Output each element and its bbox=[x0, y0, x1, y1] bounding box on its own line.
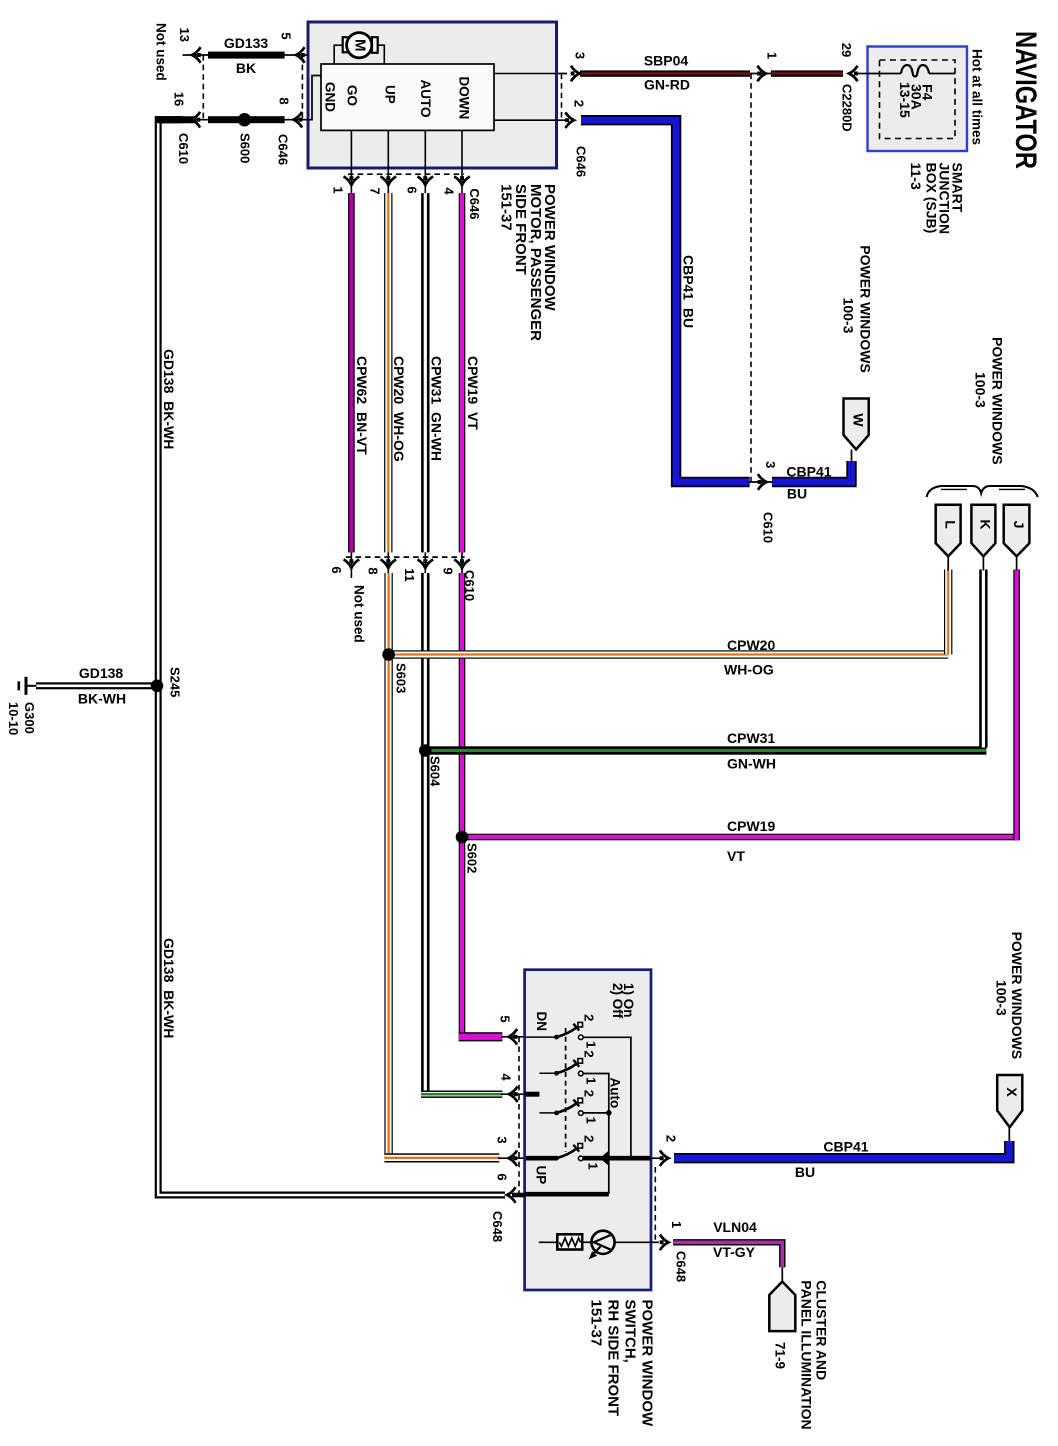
C646 pin4 arrow bbox=[454, 176, 470, 185]
svg-text:1: 1 bbox=[330, 186, 345, 193]
C646 pin4 line bbox=[461, 168, 463, 193]
bus from DN contact1 bbox=[583, 1037, 631, 1156]
svg-text:X: X bbox=[1004, 1087, 1020, 1097]
wire GD133 BK thick bbox=[208, 52, 285, 59]
connector X stub bbox=[1008, 1127, 1010, 1141]
wire SBP04 segment A outline bbox=[580, 70, 750, 76]
svg-text:K: K bbox=[977, 519, 993, 529]
switch DN (row pin5) bbox=[526, 1036, 557, 1038]
pin4 stub bbox=[501, 1093, 525, 1095]
svg-text:POWER WINDOWS: POWER WINDOWS bbox=[990, 337, 1006, 465]
ground G300 wire outline bbox=[36, 682, 152, 689]
svg-text:VT-GY: VT-GY bbox=[713, 1244, 756, 1260]
wire stub motor to arrow bbox=[557, 73, 567, 75]
resistor-lamp link bbox=[582, 1241, 591, 1243]
svg-text:GD138: GD138 bbox=[79, 665, 124, 681]
wire CBP41 BU lower outline bbox=[674, 1141, 1009, 1158]
switch C (auto) bbox=[539, 1112, 556, 1114]
wire CBP41 BU upper core bbox=[581, 120, 750, 482]
svg-text:71-9: 71-9 bbox=[772, 1342, 787, 1369]
svg-text:GD133: GD133 bbox=[224, 35, 269, 51]
power window switch box outline bbox=[525, 970, 651, 1290]
bus from B contact1 bbox=[583, 1074, 609, 1195]
wire CPW20 pin3 horizontal bbox=[384, 1153, 499, 1162]
svg-text:GO: GO bbox=[345, 85, 360, 106]
svg-text:6: 6 bbox=[404, 186, 419, 193]
wire SBP04 segment B outline bbox=[771, 70, 843, 76]
svg-text:L: L bbox=[942, 520, 958, 529]
connector C646 dashed row bbox=[348, 173, 464, 175]
svg-text:M: M bbox=[352, 39, 369, 52]
motor feed line to pin 3 bbox=[494, 73, 557, 75]
svg-text:GN-WH: GN-WH bbox=[727, 756, 776, 772]
svg-text:GN-RD: GN-RD bbox=[644, 77, 690, 93]
svg-text:VT: VT bbox=[727, 848, 745, 864]
pin 3 arrow (switch) bbox=[509, 1150, 518, 1166]
svg-text:C646: C646 bbox=[276, 134, 291, 165]
pin 2 arrow (switch) bbox=[660, 1150, 669, 1166]
svg-text:CBP41: CBP41 bbox=[786, 464, 831, 480]
connector C648 dashed right bbox=[654, 1167, 656, 1242]
svg-text:S600: S600 bbox=[237, 133, 252, 163]
svg-text:151-37: 151-37 bbox=[498, 184, 515, 231]
pin 8 arrow (motor) bbox=[294, 112, 303, 128]
pin 4 arrow (switch) bbox=[509, 1086, 518, 1102]
svg-text:WH-OG: WH-OG bbox=[724, 662, 774, 678]
svg-text:4: 4 bbox=[498, 1073, 513, 1081]
bracket overline left bbox=[941, 488, 967, 490]
svg-text:GD138 BK-WH: GD138 BK-WH bbox=[161, 349, 177, 449]
pin6 arrow-to-box thick bbox=[513, 1193, 525, 1198]
svg-text:CBP41: CBP41 bbox=[823, 1139, 868, 1155]
svg-text:1: 1 bbox=[586, 1162, 601, 1169]
connector K stub bbox=[982, 556, 984, 570]
wire stub to pin16 arrow bbox=[182, 119, 209, 121]
svg-text:SBP04: SBP04 bbox=[644, 53, 689, 69]
svg-text:29: 29 bbox=[839, 43, 854, 57]
wire CBP41 BU lower core bbox=[674, 1141, 1009, 1158]
svg-text:CPW62 BN-VT: CPW62 BN-VT bbox=[354, 356, 370, 455]
svg-text:2: 2 bbox=[581, 1014, 596, 1021]
svg-text:11: 11 bbox=[402, 568, 417, 582]
pin1 stub bbox=[651, 1241, 659, 1243]
wire CPW20 riser to L bbox=[944, 570, 952, 655]
connector C646 dashed (3/2) bbox=[561, 74, 563, 121]
svg-text:W: W bbox=[850, 413, 866, 427]
wire CPW19 pin5 horizontal bbox=[459, 1032, 503, 1041]
wire CPW31 horizontal bbox=[425, 746, 986, 754]
svg-text:POWER WINDOWS: POWER WINDOWS bbox=[1009, 932, 1025, 1060]
wire CPW31 vertical lower bbox=[421, 573, 429, 1094]
wire CBP41 BU lower-right core bbox=[772, 461, 852, 482]
wire GD138 BK-WH main core bbox=[158, 120, 505, 1195]
svg-text:1: 1 bbox=[584, 1077, 599, 1084]
wire CPW31 pin4 horizontal bbox=[421, 1091, 502, 1098]
ground symbol G300 bbox=[25, 677, 28, 695]
svg-text:PANEL ILLUMINATION: PANEL ILLUMINATION bbox=[798, 1280, 814, 1429]
svg-text:S603: S603 bbox=[394, 663, 409, 693]
svg-text:RH SIDE FRONT: RH SIDE FRONT bbox=[605, 1300, 622, 1417]
wire CPW62 BN-VT vertical bbox=[348, 193, 355, 552]
mechanical link dashed bbox=[565, 1028, 567, 1152]
C610 pin8 arrow bbox=[381, 559, 397, 568]
wire CPW31 riser to K bbox=[979, 570, 987, 748]
wire stub between segs bbox=[750, 73, 772, 75]
motor line to pin 2 bbox=[494, 119, 557, 121]
splice S603 bbox=[382, 648, 395, 661]
svg-text:S604: S604 bbox=[428, 756, 443, 787]
pin 5 arrow (motor) bbox=[296, 47, 305, 63]
svg-text:BK-WH: BK-WH bbox=[78, 691, 126, 707]
svg-text:S245: S245 bbox=[168, 667, 183, 697]
svg-text:GD138 BK-WH: GD138 BK-WH bbox=[161, 938, 177, 1038]
bus junction dot bbox=[606, 1110, 612, 1116]
svg-text:16: 16 bbox=[171, 92, 186, 106]
wire CPW19 horizontal bbox=[462, 834, 1017, 841]
svg-text:C648: C648 bbox=[490, 1211, 505, 1242]
wire W stub bbox=[851, 450, 853, 463]
wire CPW31 GN-WH vertical upper bbox=[421, 193, 429, 552]
svg-text:2: 2 bbox=[581, 1090, 596, 1097]
svg-text:1: 1 bbox=[584, 1117, 599, 1124]
wire VLN04 core VT-GY bbox=[673, 1242, 782, 1267]
svg-text:C648: C648 bbox=[674, 1251, 689, 1282]
UP contact1 to pin2 thick bbox=[583, 1156, 651, 1161]
SJB inner dashed box bbox=[880, 60, 956, 139]
svg-text:C610: C610 bbox=[760, 512, 775, 543]
svg-text:CPW20: CPW20 bbox=[727, 637, 775, 653]
ground G300 wire core bbox=[36, 685, 152, 688]
connector X pentagon bbox=[997, 1075, 1022, 1127]
wire BK S600 left bbox=[208, 116, 246, 123]
svg-text:10-10: 10-10 bbox=[6, 702, 21, 735]
lamp symbol circle bbox=[591, 1231, 614, 1254]
svg-text:11-3: 11-3 bbox=[908, 163, 924, 190]
resistor zigzag bbox=[559, 1238, 580, 1246]
connector C648 dashed left bbox=[518, 1037, 520, 1195]
pin 5 arrow (switch) bbox=[509, 1029, 518, 1045]
svg-text:UP: UP bbox=[534, 1166, 549, 1185]
wire SBP04 segment A core GN-RD bbox=[580, 72, 750, 74]
pin 13 arrow bbox=[192, 47, 201, 63]
svg-text:S602: S602 bbox=[465, 843, 480, 873]
C646 pin6 line bbox=[424, 168, 426, 193]
motor pin line DOWN bbox=[461, 130, 463, 168]
wire SBP04 segment B core bbox=[771, 72, 843, 74]
svg-text:2) Off: 2) Off bbox=[610, 983, 625, 1019]
svg-text:BK: BK bbox=[236, 60, 256, 76]
svg-text:4: 4 bbox=[441, 187, 456, 195]
pin 3 arrow (motor side) bbox=[571, 66, 580, 82]
svg-text:2: 2 bbox=[571, 100, 586, 107]
wire thin across C610 blue bbox=[748, 481, 773, 483]
svg-text:NAVIGATOR: NAVIGATOR bbox=[1009, 31, 1042, 169]
svg-text:BOX (SJB): BOX (SJB) bbox=[924, 163, 940, 234]
pin 16 arrow bbox=[192, 112, 201, 128]
svg-text:C646: C646 bbox=[574, 146, 589, 177]
svg-text:DN: DN bbox=[534, 1012, 549, 1032]
C610 pin9 line bbox=[461, 552, 463, 573]
svg-text:G300: G300 bbox=[22, 702, 37, 734]
svg-text:5: 5 bbox=[278, 32, 293, 39]
pin 29 arrow bbox=[849, 66, 858, 82]
svg-text:100-3: 100-3 bbox=[841, 298, 857, 334]
motor pin line UP bbox=[387, 130, 389, 168]
motor pin line GO bbox=[350, 130, 352, 168]
C646 pin7 line bbox=[387, 168, 389, 193]
wire CPW19 vertical lower bbox=[459, 573, 466, 1037]
svg-text:8: 8 bbox=[276, 97, 291, 104]
svg-text:13-15: 13-15 bbox=[897, 82, 913, 118]
switch B (second) bbox=[539, 1072, 556, 1074]
svg-text:CPW31: CPW31 bbox=[727, 730, 775, 746]
svg-text:CBP41 BU: CBP41 BU bbox=[681, 255, 697, 328]
svg-text:1: 1 bbox=[764, 52, 779, 59]
svg-text:CPW19 VT: CPW19 VT bbox=[465, 356, 481, 430]
bracket overline right bbox=[999, 488, 1025, 490]
connector C646 dashed (5/8) bbox=[301, 55, 303, 120]
illumination feed line bbox=[539, 1241, 558, 1243]
internal arrowhead on UP line bbox=[601, 1152, 609, 1165]
wire BK S600 right bbox=[246, 116, 285, 123]
connector J stub bbox=[1016, 556, 1018, 570]
resistor symbol box bbox=[557, 1234, 582, 1249]
svg-text:100-3: 100-3 bbox=[973, 372, 989, 408]
connector L pentagon bbox=[936, 505, 961, 557]
bracket brace over L K J bbox=[927, 486, 1038, 497]
svg-text:Hot at all times: Hot at all times bbox=[970, 49, 985, 145]
svg-text:2: 2 bbox=[664, 1135, 679, 1142]
wire GD138 BK-WH main outline bbox=[158, 120, 505, 1195]
svg-text:BU: BU bbox=[795, 1164, 815, 1180]
wire CPW20 vertical lower bbox=[384, 573, 392, 1158]
svg-text:GND: GND bbox=[323, 82, 338, 112]
illumination connector stub bbox=[781, 1267, 783, 1281]
svg-text:2: 2 bbox=[581, 1135, 596, 1142]
svg-text:UP: UP bbox=[383, 85, 398, 104]
pin6 internal thick bbox=[525, 1192, 609, 1197]
svg-text:AUTO: AUTO bbox=[418, 80, 433, 118]
wire CPW19 riser to J bbox=[1013, 570, 1020, 841]
svg-text:3: 3 bbox=[572, 52, 587, 59]
svg-text:POWER WINDOW: POWER WINDOW bbox=[639, 1300, 656, 1427]
svg-text:CPW31 GN-WH: CPW31 GN-WH bbox=[429, 356, 445, 461]
motor symbol case left bbox=[334, 45, 343, 64]
C610 pin8 line bbox=[387, 552, 389, 573]
C610 pin9 arrow bbox=[454, 559, 470, 568]
wire CBP41 BU lower-right outline bbox=[772, 461, 852, 482]
svg-text:C646: C646 bbox=[467, 188, 482, 219]
svg-text:13: 13 bbox=[177, 27, 192, 41]
svg-text:SWITCH,: SWITCH, bbox=[621, 1300, 638, 1363]
fuse F4 30A symbol bbox=[901, 65, 929, 76]
svg-text:100-3: 100-3 bbox=[994, 980, 1010, 1016]
lamp chords bbox=[594, 1235, 612, 1250]
svg-text:Auto: Auto bbox=[608, 1078, 623, 1109]
pin5 stub bbox=[501, 1036, 525, 1038]
power window motor box outline bbox=[308, 22, 557, 168]
splice S602 bbox=[456, 831, 469, 844]
svg-text:1: 1 bbox=[584, 1041, 599, 1048]
motor symbol brush left bbox=[343, 37, 350, 52]
svg-text:Not used: Not used bbox=[352, 585, 367, 643]
motor symbol case right bbox=[378, 45, 385, 64]
pin6 stub arrow bbox=[507, 1187, 516, 1203]
connector C610 dashed row bbox=[346, 556, 465, 558]
C610 pin11 arrow bbox=[418, 559, 434, 568]
C610 pin11 line bbox=[424, 552, 426, 573]
motor pin line AUTO bbox=[424, 130, 426, 168]
svg-text:J: J bbox=[1011, 521, 1027, 529]
svg-text:3: 3 bbox=[763, 461, 778, 468]
pin2 stub bbox=[651, 1157, 660, 1159]
wire VLN04 outline bbox=[673, 1242, 782, 1267]
svg-text:CPW19: CPW19 bbox=[727, 818, 775, 834]
switch UP (row pin3) bbox=[526, 1156, 557, 1161]
motor inner block bbox=[321, 64, 494, 130]
GND step wire to pin 8 bbox=[308, 76, 321, 120]
motor symbol circle M bbox=[347, 33, 372, 58]
wire from fuse to SJB inner edge bbox=[929, 73, 955, 75]
svg-text:Not used: Not used bbox=[154, 23, 169, 81]
wire BK-WH corner stub pin16 bbox=[155, 116, 183, 123]
connector C610 dashed (13/16) bbox=[202, 55, 204, 120]
wire motor pin2 stub bbox=[557, 119, 567, 121]
svg-text:2: 2 bbox=[581, 1050, 596, 1057]
svg-text:8: 8 bbox=[365, 567, 380, 574]
svg-text:7: 7 bbox=[367, 187, 382, 194]
splice S245 bbox=[151, 680, 164, 693]
connector L stub bbox=[947, 556, 949, 570]
connector W pentagon bbox=[844, 399, 869, 450]
wire CPW19 VT vertical upper bbox=[459, 193, 466, 552]
svg-text:9: 9 bbox=[440, 567, 455, 574]
C610 pin6 arrow bbox=[344, 559, 360, 568]
splice S604 bbox=[419, 744, 432, 757]
wire GD133 to pin5 arrow bbox=[285, 54, 308, 56]
pin 2 arrow (motor right) bbox=[565, 112, 574, 128]
pin 1 arrow (switch) bbox=[660, 1235, 669, 1251]
C610 pin6 line bbox=[350, 552, 352, 578]
wire CPW20 horizontal bbox=[389, 650, 949, 658]
lamp arrow bbox=[593, 1247, 601, 1256]
pin 1 arrow mid connector bbox=[757, 66, 766, 82]
svg-text:3: 3 bbox=[494, 1136, 509, 1143]
pin 3 arrow C610 blue bbox=[758, 474, 767, 490]
svg-text:BU: BU bbox=[787, 486, 807, 502]
C646 pin1 arrow bbox=[344, 176, 360, 185]
splice S600 bbox=[238, 113, 251, 126]
lamp to pin1 line bbox=[615, 1241, 651, 1243]
C646 pin7 arrow bbox=[381, 176, 397, 185]
svg-text:6: 6 bbox=[494, 1173, 509, 1180]
svg-text:CPW20 WH-OG: CPW20 WH-OG bbox=[391, 356, 407, 462]
pin4 stub thick bbox=[525, 1092, 540, 1097]
C646 pin1 line bbox=[350, 168, 352, 193]
wire GD133 thin left end bbox=[183, 54, 210, 56]
svg-text:DOWN: DOWN bbox=[456, 77, 471, 120]
smart junction box SJB outline bbox=[868, 47, 968, 152]
wire CBP41 BU upper outline bbox=[581, 120, 750, 482]
connector C610 dashed line (pin1/pin3) bbox=[750, 74, 752, 483]
wire to pin8 arrow bbox=[285, 119, 308, 121]
svg-text:C2280D: C2280D bbox=[840, 84, 855, 132]
motor symbol brush right bbox=[372, 37, 378, 53]
svg-text:1: 1 bbox=[669, 1221, 684, 1228]
svg-text:C610: C610 bbox=[176, 133, 191, 164]
svg-text:POWER WINDOWS: POWER WINDOWS bbox=[858, 245, 874, 373]
svg-text:6: 6 bbox=[329, 566, 344, 573]
svg-text:5: 5 bbox=[497, 1015, 512, 1022]
wire into fuse (hot feed) bbox=[868, 73, 901, 75]
wire CPW20 WH-OG vertical upper bbox=[384, 193, 392, 552]
connector 71-9 pentagon bbox=[769, 1282, 795, 1332]
svg-text:VLN04: VLN04 bbox=[713, 1219, 757, 1235]
connector K pentagon bbox=[971, 505, 995, 557]
C646 pin6 arrow bbox=[418, 176, 434, 185]
svg-text:CLUSTER AND: CLUSTER AND bbox=[814, 1280, 830, 1380]
wire GD138 corner stub solid bbox=[155, 116, 183, 123]
pin3 stub bbox=[498, 1157, 525, 1159]
connector J pentagon bbox=[1004, 505, 1030, 557]
wire pin29 to SJB bbox=[856, 73, 868, 75]
bus C contact1 link bbox=[583, 1112, 609, 1114]
svg-text:151-37: 151-37 bbox=[588, 1300, 605, 1347]
